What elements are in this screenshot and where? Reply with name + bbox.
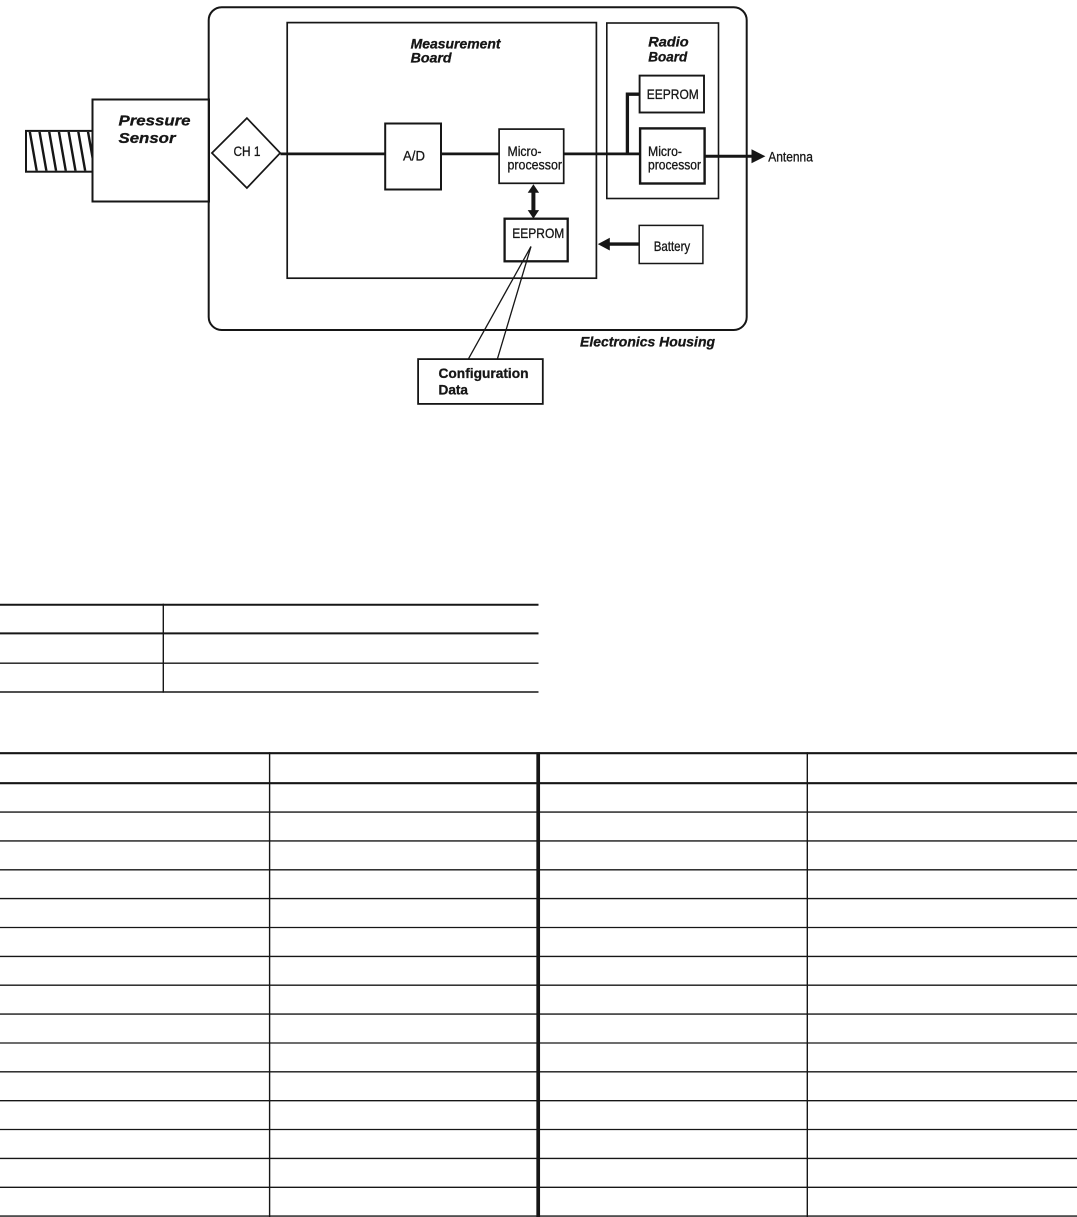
svg-text:Board: Board [411, 49, 452, 65]
svg-text:Electronics Housing: Electronics Housing [580, 334, 715, 350]
wire: double-headed arrow Micro-processor to EEPROM [528, 184, 539, 218]
callout wires: EEPROM to Configuration Data [468, 247, 531, 359]
svg-text:Data: Data [439, 382, 469, 398]
svg-text:Battery: Battery [654, 238, 691, 254]
svg-text:Antenna: Antenna [768, 150, 813, 165]
large table: column divider 1 [269, 752, 271, 1217]
node: CH 1 diamond [212, 118, 280, 188]
block: Battery [639, 225, 703, 263]
svg-text:CH 1: CH 1 [234, 144, 261, 159]
large table: column divider 3 [806, 752, 808, 1217]
wire: Battery arrow to measurement board [598, 238, 639, 251]
small table: column divider [162, 604, 164, 693]
block: Micro-processor (radio) [640, 128, 705, 183]
svg-text:processor: processor [508, 158, 563, 173]
block: EEPROM (measurement) [505, 219, 568, 262]
board: Measurement Board [287, 23, 596, 279]
svg-text:Pressure: Pressure [119, 113, 191, 129]
wire: CH1 to A/D [280, 153, 385, 156]
svg-text:EEPROM: EEPROM [512, 226, 564, 241]
Electronics Housing rounded enclosure [209, 7, 747, 330]
svg-text:A/D: A/D [403, 149, 425, 164]
wire: radio EEPROM to main line (L connector) [627, 94, 639, 155]
svg-text:EEPROM: EEPROM [647, 87, 699, 102]
wire: Micro-processor to Radio Micro-processor [564, 153, 640, 156]
small table: row line [0, 662, 539, 664]
block: Pressure Sensor [93, 100, 210, 202]
block: Micro-processor (measurement) [499, 129, 564, 183]
large table: thick center divider [536, 752, 540, 1217]
svg-text:Radio: Radio [648, 34, 689, 50]
wire: Antenna arrow [705, 149, 766, 163]
large table: header bottom border [0, 782, 1077, 784]
svg-text:Configuration: Configuration [439, 365, 529, 381]
board: Radio Board [607, 23, 719, 199]
small table: bottom border [0, 691, 539, 693]
wire: A/D to Micro-processor [441, 153, 499, 156]
large table: top border [0, 752, 1077, 754]
svg-text:Sensor: Sensor [119, 131, 178, 147]
threaded pressure stem [26, 130, 95, 173]
large table: row lines [0, 812, 1077, 1216]
callout box: Configuration Data [418, 359, 543, 404]
block: A/D converter [385, 124, 441, 190]
block: EEPROM (radio) [640, 76, 704, 113]
small table: top border [0, 604, 539, 606]
svg-text:Board: Board [648, 48, 687, 64]
small table: header bottom border [0, 632, 539, 634]
svg-text:processor: processor [648, 157, 701, 172]
